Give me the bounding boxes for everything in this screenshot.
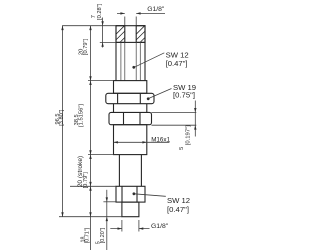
M16x1 arrow line — [114, 141, 170, 143]
hatch left block — [116, 26, 125, 43]
dim line 7 — [102, 18, 104, 48]
leader dot SW19 — [147, 97, 150, 100]
svg-text:[0.47"]: [0.47"] — [167, 205, 189, 214]
svg-text:[0.71"]: [0.71"] — [85, 227, 91, 243]
SW12 block bottom — [116, 186, 145, 202]
piston rod — [119, 155, 141, 187]
svg-text:G1/8": G1/8" — [151, 223, 169, 230]
upper tube G1/8 port walls — [116, 42, 145, 80]
ext line collar top — [88, 80, 114, 82]
hex nut SW19 — [106, 93, 154, 103]
svg-text:5: 5 — [179, 147, 185, 150]
ext line hex2 bottom — [152, 124, 197, 126]
G1/8 top dim line — [117, 12, 165, 14]
leader SW12 top — [134, 53, 164, 68]
svg-text:G1/8": G1/8" — [147, 6, 165, 13]
ext line block top — [70, 185, 116, 187]
ext line hatch bottom — [100, 41, 116, 43]
dim line 5 bottom — [106, 190, 108, 250]
hatch right block — [136, 26, 145, 43]
leader SW19 — [149, 89, 172, 99]
arrows 18 — [89, 186, 91, 190]
arrows G1/8 top — [120, 12, 124, 14]
arrows 5 bottom outside — [106, 197, 108, 201]
ext line top — [62, 25, 116, 27]
leader dot top SW12 — [132, 66, 135, 69]
arrows M16x1 — [114, 141, 118, 143]
bottom stem G1/8 — [122, 202, 139, 217]
dim chain line left — [90, 26, 92, 250]
ext lines G1/8 bottom — [122, 220, 139, 232]
svg-text:[0.28"]: [0.28"] — [97, 3, 103, 20]
svg-text:[0.197"]: [0.197"] — [185, 125, 191, 145]
dim line 5 right — [194, 101, 196, 137]
svg-text:[1.5156"]: [1.5156"] — [79, 104, 85, 127]
svg-text:[0.20"]: [0.20"] — [100, 227, 106, 243]
locknut hex2 — [109, 112, 152, 124]
port bore lines — [121, 42, 140, 80]
ext line bottom reference — [59, 216, 122, 218]
M16x1 threaded body — [114, 125, 147, 155]
ext lines G1/8 top — [125, 17, 136, 26]
leader SW12 bottom — [134, 194, 166, 197]
arrows 5 right outside — [194, 108, 196, 112]
svg-text:[0.79"]: [0.79"] — [83, 38, 89, 55]
top port body — [116, 26, 145, 43]
G1/8 bottom dim line — [110, 228, 149, 230]
ext line rod shoulder — [88, 154, 114, 156]
svg-text:[0.75"]: [0.75"] — [173, 90, 195, 99]
svg-text:SW 12: SW 12 — [167, 196, 190, 205]
svg-text:[0.47"]: [0.47"] — [166, 59, 188, 68]
arrows 38.5 — [89, 81, 91, 85]
leader dot bottom SW12 — [133, 192, 136, 195]
arrows G1/8 bottom — [118, 227, 122, 229]
arrows 20 top — [89, 26, 91, 30]
tube between hexes — [114, 104, 147, 113]
svg-text:[3.80"]: [3.80"] — [59, 109, 65, 126]
svg-text:M16x1: M16x1 — [151, 137, 170, 144]
collar — [114, 81, 147, 94]
arrows 7 outside — [101, 21, 103, 25]
ext line hex2 top — [152, 111, 197, 113]
arrows 96.5 — [61, 26, 63, 30]
ext line block bottom — [103, 201, 116, 203]
arrows 20 stroke — [89, 155, 91, 159]
dim line 96.5 — [62, 26, 64, 217]
svg-text:[0.79"]: [0.79"] — [83, 172, 89, 189]
